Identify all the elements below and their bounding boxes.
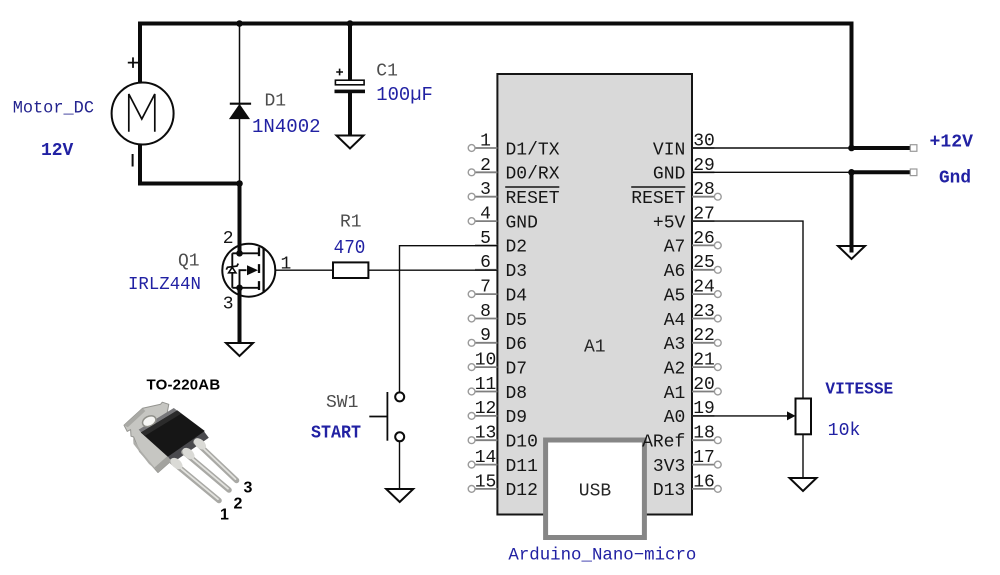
- svg-text:IRLZ44N: IRLZ44N: [128, 275, 201, 295]
- wire potentiometer bottom to ground: [802, 434, 804, 478]
- svg-text:Motor_DC: Motor_DC: [13, 99, 94, 119]
- pin 10 D7 stub: [468, 351, 527, 380]
- svg-text:20: 20: [693, 375, 715, 395]
- svg-text:A5: A5: [664, 286, 686, 306]
- node junction at 239.5,287.8: [236, 285, 243, 292]
- svg-text:3: 3: [480, 180, 491, 200]
- ground below C1: [337, 136, 364, 149]
- svg-text:22: 22: [693, 326, 715, 346]
- pin 8 D5 stub: [468, 302, 527, 331]
- svg-text:USB: USB: [579, 482, 612, 502]
- svg-text:2: 2: [234, 496, 243, 513]
- terminal square Gnd: [910, 169, 917, 176]
- svg-text:470: 470: [334, 237, 366, 259]
- svg-text:13: 13: [475, 424, 497, 444]
- svg-text:2: 2: [223, 229, 234, 249]
- pin 27 +5V stub: [653, 205, 715, 234]
- svg-text:D1: D1: [265, 92, 287, 112]
- pin 15 D12 stub: [468, 472, 538, 501]
- wire SW1 bottom to ground: [399, 440, 401, 489]
- motor plus mark: [128, 57, 139, 68]
- pin 14 D11 stub: [468, 448, 538, 477]
- ground right Gnd rail: [838, 246, 865, 259]
- svg-text:18: 18: [693, 424, 715, 444]
- svg-text:D7: D7: [506, 359, 528, 379]
- svg-text:1: 1: [281, 254, 292, 274]
- svg-text:RESET: RESET: [506, 189, 560, 209]
- svg-text:D12: D12: [506, 481, 538, 501]
- transistor Q1 MOSFET circle: [222, 244, 275, 297]
- svg-text:24: 24: [693, 278, 715, 298]
- svg-text:+12V: +12V: [930, 132, 974, 152]
- wire stub into right ground symbol: [850, 245, 854, 253]
- potentiometer RV1 VITESSE: [796, 399, 812, 435]
- svg-text:D9: D9: [506, 408, 528, 428]
- svg-text:4: 4: [480, 205, 491, 225]
- pin 21 A2 stub: [664, 351, 722, 380]
- motor M Motor_DC: [112, 83, 174, 145]
- pin 3 RESET stub: [468, 180, 560, 209]
- svg-text:10k: 10k: [828, 421, 861, 441]
- svg-text:3: 3: [244, 480, 253, 497]
- pin 23 A4 stub: [664, 302, 722, 331]
- svg-text:D0/RX: D0/RX: [506, 165, 560, 185]
- pin 5 D2 stub: [475, 229, 527, 258]
- svg-text:SW1: SW1: [326, 393, 358, 413]
- svg-text:28: 28: [693, 180, 715, 200]
- svg-text:GND: GND: [506, 213, 538, 233]
- svg-text:A3: A3: [664, 335, 686, 355]
- pin 25 A6 stub: [664, 253, 722, 282]
- svg-text:11: 11: [475, 375, 497, 395]
- wire R1 to pin6 D3: [368, 269, 497, 271]
- pin 7 D4 stub: [468, 278, 527, 307]
- terminal square +12V: [910, 145, 917, 152]
- wire pin29 GND to Gnd node: [692, 171, 852, 173]
- node junction at 851.5,148: [848, 145, 855, 152]
- svg-text:D6: D6: [506, 335, 528, 355]
- svg-text:12V: 12V: [41, 141, 73, 161]
- svg-text:Q1: Q1: [178, 251, 200, 271]
- svg-text:2: 2: [480, 156, 491, 176]
- pin 17 3V3 stub: [653, 448, 721, 477]
- svg-text:START: START: [311, 424, 361, 444]
- wire capacitor C1 top lead: [348, 24, 352, 81]
- pin 9 D6 stub: [468, 326, 527, 355]
- svg-text:D10: D10: [506, 433, 538, 453]
- TO-220AB package photo: [124, 402, 237, 500]
- wire pin27 +5V to potentiometer: [692, 221, 803, 398]
- Q1 body diode (zener-style): [226, 264, 238, 270]
- node junction at 239.5,253.3: [236, 250, 243, 257]
- node junction at 239.5,23.5: [236, 20, 243, 27]
- pin 24 A5 stub: [664, 278, 722, 307]
- svg-text:R1: R1: [340, 213, 362, 233]
- node junction at 350,23.5: [347, 20, 354, 27]
- ground below SW1: [386, 489, 413, 502]
- svg-text:100µF: 100µF: [376, 84, 433, 106]
- pin 6 D3 stub: [475, 253, 527, 282]
- svg-text:14: 14: [475, 448, 497, 468]
- svg-text:8: 8: [480, 302, 491, 322]
- pin 22 A3 stub: [664, 326, 722, 355]
- svg-text:D11: D11: [506, 457, 538, 477]
- node junction at 239.5,183.5: [236, 180, 243, 187]
- svg-text:12: 12: [475, 399, 497, 419]
- pin 18 ARef stub: [642, 424, 721, 453]
- wire top power bus from motor to right drop: [140, 24, 852, 149]
- svg-text:+5V: +5V: [653, 213, 686, 233]
- svg-text:1: 1: [480, 131, 491, 151]
- svg-text:25: 25: [693, 253, 715, 273]
- svg-text:TO-220AB: TO-220AB: [147, 377, 221, 394]
- ground below potentiometer: [790, 478, 817, 491]
- svg-text:D2: D2: [506, 238, 528, 258]
- pin 2 D0/RX stub: [468, 156, 560, 185]
- wire pin19 A0 to potentiometer wiper: [692, 415, 788, 417]
- Q1 internals: drain/source contacts, channel, gate, arrow, body diode: [232, 253, 259, 287]
- svg-text:ARef: ARef: [642, 433, 685, 453]
- svg-text:VITESSE: VITESSE: [825, 380, 893, 399]
- pin 29 GND stub: [653, 156, 715, 185]
- pin 20 A1 stub: [664, 375, 722, 404]
- svg-text:10: 10: [475, 351, 497, 371]
- svg-text:26: 26: [693, 229, 715, 249]
- pin 11 D8 stub: [468, 375, 527, 404]
- pin 19 A0 stub: [664, 399, 715, 428]
- wire Gnd node down to ground symbol: [850, 172, 854, 246]
- svg-text:7: 7: [480, 278, 491, 298]
- capacitor plus mark: [336, 69, 343, 76]
- svg-text:A6: A6: [664, 262, 686, 282]
- pin 28 RESET stub: [631, 180, 721, 209]
- motor minus mark: [132, 154, 134, 167]
- svg-text:D1/TX: D1/TX: [506, 140, 560, 160]
- IC A1 Arduino Nano body: [497, 74, 692, 515]
- svg-text:D4: D4: [506, 286, 528, 306]
- svg-text:21: 21: [693, 351, 715, 371]
- svg-text:A1: A1: [584, 338, 606, 358]
- pin 30 VIN stub: [653, 131, 715, 160]
- wire gate to resistor R1: [263, 269, 333, 271]
- svg-text:3V3: 3V3: [653, 457, 685, 477]
- pin 12 D9 stub: [468, 399, 527, 428]
- svg-text:15: 15: [475, 472, 497, 492]
- svg-text:Arduino_Nano−micro: Arduino_Nano−micro: [508, 547, 696, 566]
- wire pin30 VIN to +12V node: [692, 147, 852, 149]
- wire capacitor C1 bottom lead to ground: [348, 93, 352, 136]
- wire motor bottom to MOSFET drain: [140, 145, 240, 254]
- wire MOSFET source to ground: [238, 288, 242, 344]
- capacitor C1 symbol: [335, 80, 364, 85]
- wire pin5 D2 to switch SW1: [400, 246, 498, 393]
- ground below Q1: [226, 343, 253, 356]
- USB connector: [546, 440, 645, 538]
- svg-text:VIN: VIN: [653, 140, 685, 160]
- wire Gnd terminal stub: [852, 170, 912, 174]
- pin 16 D13 stub: [653, 472, 721, 501]
- svg-text:Gnd: Gnd: [939, 168, 971, 188]
- svg-text:D8: D8: [506, 384, 528, 404]
- svg-text:1N4002: 1N4002: [252, 116, 321, 138]
- pin 1 D1/TX stub: [468, 131, 560, 160]
- svg-text:3: 3: [223, 295, 234, 315]
- svg-text:D5: D5: [506, 311, 528, 331]
- svg-text:RESET: RESET: [631, 189, 685, 209]
- wire +12V terminal stub: [852, 146, 912, 150]
- svg-text:A1: A1: [664, 384, 686, 404]
- svg-text:A0: A0: [664, 408, 686, 428]
- svg-text:17: 17: [693, 448, 715, 468]
- svg-text:23: 23: [693, 302, 715, 322]
- pin 13 D10 stub: [468, 424, 538, 453]
- node junction at 851.5,172.3: [848, 169, 855, 176]
- svg-text:9: 9: [480, 326, 491, 346]
- resistor R1: [333, 262, 368, 278]
- svg-text:A7: A7: [664, 238, 686, 258]
- svg-text:C1: C1: [376, 62, 398, 82]
- switch SW1 push button: [395, 392, 404, 401]
- wire diode branch (thin): [239, 24, 241, 184]
- svg-text:D3: D3: [506, 262, 528, 282]
- svg-text:GND: GND: [653, 165, 685, 185]
- svg-text:A4: A4: [664, 311, 686, 331]
- diode D1 symbol: [230, 103, 251, 105]
- svg-text:1: 1: [220, 507, 229, 524]
- svg-text:16: 16: [693, 472, 715, 492]
- svg-text:D13: D13: [653, 481, 685, 501]
- pin 26 A7 stub: [664, 229, 722, 258]
- svg-text:A2: A2: [664, 359, 686, 379]
- pin 4 GND stub: [468, 205, 538, 234]
